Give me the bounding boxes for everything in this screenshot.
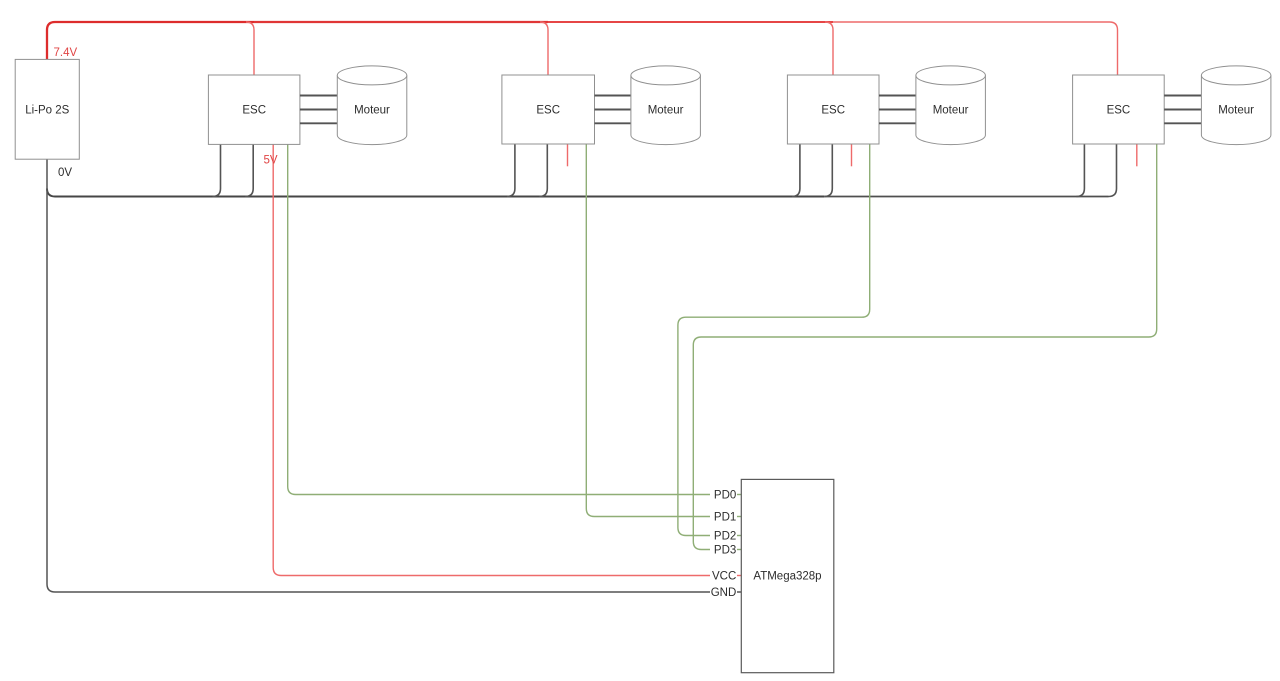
wire 7.4V red power bus segment ESC1-ESC2 (overlap x3) — [254, 21, 548, 23]
wire ESC3 ground pin 2 to bus — [824, 144, 832, 196]
wire VCC pin tick — [737, 575, 741, 577]
wire ESC4 ground pin 2 to bus — [1109, 144, 1117, 196]
wire ESC2 ground pin 1 to bus — [507, 144, 515, 196]
wire ESC4 ground pin 1 to bus — [1076, 144, 1084, 196]
wire battery minus down to GND pin of ATMega — [47, 159, 710, 592]
wire red 5V stub ESC3 — [851, 144, 853, 166]
svg-text:Moteur: Moteur — [933, 105, 969, 117]
ESC U4 — [787, 75, 879, 144]
svg-text:ESC: ESC — [242, 105, 266, 117]
wire ground bus 0V along y=196.5 — [47, 189, 824, 197]
svg-text:PD1: PD1 — [714, 512, 736, 524]
wire PD1 pin tick — [737, 516, 741, 518]
svg-text:VCC: VCC — [712, 571, 736, 583]
wire 7.4V red power bus segment ESC2-ESC3 (overlap x2) — [548, 21, 833, 23]
wire PD2 pin tick — [737, 535, 741, 537]
svg-text:PD3: PD3 — [714, 545, 736, 557]
wire red drop 7.4V to ESC1 — [246, 22, 254, 75]
svg-text:Li-Po 2S: Li-Po 2S — [25, 105, 69, 117]
svg-text:ATMega328p: ATMega328p — [753, 571, 821, 583]
wire signal ESC1 to PD0 — [288, 144, 710, 494]
svg-text:7.4V: 7.4V — [54, 47, 78, 59]
wire red drop 7.4V to ESC3 — [825, 22, 833, 75]
svg-text:ESC: ESC — [536, 105, 560, 117]
wire red 5V stub ESC2 — [567, 144, 569, 166]
wire ESC3 ground pin 1 to bus — [792, 144, 800, 196]
wire PD0 pin tick — [737, 494, 741, 496]
wire ESC3 motor phases — [879, 96, 916, 124]
svg-text:Moteur: Moteur — [354, 105, 390, 117]
ESC U2 — [208, 75, 300, 144]
svg-text:0V: 0V — [58, 167, 72, 179]
wire ESC1 motor phases — [300, 96, 337, 124]
motor M3 Moteur — [916, 66, 986, 145]
svg-text:PD0: PD0 — [714, 490, 736, 502]
wire 7.4V red power bus from battery to ESC4 (overlap x4) — [47, 22, 254, 59]
wire 5V from ESC1 BEC to VCC of ATMega — [273, 144, 710, 575]
wire ESC2 ground pin 2 to bus — [539, 144, 547, 196]
wire ground bus 0V right portion — [824, 196, 1108, 198]
wire GND pin tick — [737, 591, 741, 593]
op-amp U1 ATMega328p microcontroller — [741, 479, 834, 672]
svg-text:5V: 5V — [264, 155, 278, 167]
motor M1 Moteur — [337, 66, 407, 145]
wire 7.4V red power bus segment ESC3-ESC4 (single) — [833, 21, 1110, 23]
wire signal ESC2 to PD1 — [586, 144, 710, 516]
svg-text:Moteur: Moteur — [1218, 105, 1254, 117]
wire ESC4 motor phases — [1164, 96, 1201, 124]
ESC U3 — [502, 75, 595, 144]
wire signal ESC4 to PD3 — [693, 144, 1156, 549]
wire red drop 7.4V to ESC4 — [1110, 22, 1118, 75]
svg-text:ESC: ESC — [821, 105, 845, 117]
wire red drop 7.4V to ESC2 — [540, 22, 548, 75]
svg-text:ESC: ESC — [1107, 105, 1131, 117]
svg-text:Moteur: Moteur — [648, 105, 684, 117]
ESC U5 — [1073, 75, 1165, 144]
wire red 5V stub ESC4 — [1136, 144, 1138, 166]
wire ESC1 ground pin 1 to bus — [213, 144, 221, 196]
battery B1 Li-Po 2S — [15, 59, 79, 159]
wire ESC1 ground pin 2 to bus — [245, 144, 253, 196]
wire signal ESC3 to PD2 — [678, 144, 870, 535]
wire ESC2 motor phases — [595, 96, 631, 124]
motor M2 Moteur — [631, 66, 701, 145]
svg-text:PD2: PD2 — [714, 531, 736, 543]
svg-text:GND: GND — [711, 587, 737, 599]
motor M4 Moteur — [1201, 66, 1271, 145]
wire PD3 pin tick — [737, 549, 741, 551]
